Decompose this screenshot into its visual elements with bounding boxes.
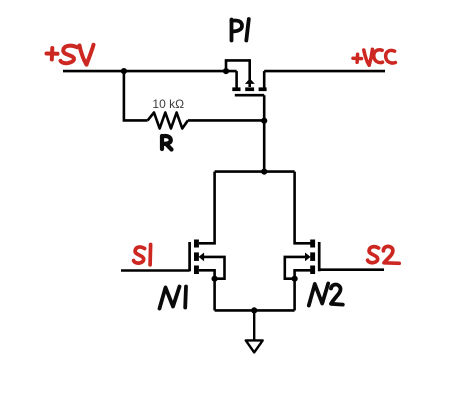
transistor N1 body arrow (points left) (199, 253, 205, 262)
net label +5V (47, 45, 94, 65)
transistor P1 channel segment (source, left bar) (232, 87, 240, 91)
reference label N1 (160, 287, 187, 309)
wire: resistor output to P1 gate node (188, 119, 264, 122)
wire: N1 drain vertical (199, 172, 215, 244)
transistor P1 body arrow (points up) (245, 79, 255, 84)
transistor P1 reference label (232, 19, 249, 41)
wire: P1 body loop over the top (226, 60, 250, 87)
transistor P1 channel segment (body, middle bar) (245, 87, 254, 91)
transistor N1 gate bar (188, 242, 191, 271)
node: junction of rail and resistor branch (121, 68, 127, 74)
transistor N2 gate bar (318, 242, 321, 271)
wire: bottom source rail (215, 309, 295, 312)
transistor N2 channel segment (source) (310, 266, 315, 275)
wire: branch horizontal to both drains (215, 170, 295, 173)
wire: N2 drain vertical (295, 172, 311, 244)
node: junction of rail and P1 body loop (223, 68, 229, 74)
net label S1 (134, 245, 151, 265)
wire: N2 body to source (285, 257, 305, 279)
wire: S1 input to N1 gate (121, 269, 190, 272)
reference label N2 (309, 284, 343, 306)
transistor N2 channel segment (drain) (310, 240, 315, 248)
transistor N2 body arrow (points right) (305, 253, 311, 262)
node: N1 source/body junction (212, 276, 218, 282)
transistor N2 channel segment (body) (310, 252, 315, 261)
node: ground junction (251, 307, 257, 313)
wire: P1 drain stub up to rail (263, 71, 266, 88)
net label +VCC (353, 49, 395, 65)
net label S2 (368, 246, 400, 263)
wire: N1 source stub down (199, 270, 215, 310)
wire: P1 source stub from rail down (235, 71, 238, 88)
wire: resistor branch, vertical drop and lead-in (124, 71, 148, 120)
wire: ground stem (253, 310, 255, 340)
node: N2 source/body junction (292, 276, 298, 282)
reference label R (162, 136, 172, 150)
svg-text:10 kΩ: 10 kΩ (152, 97, 184, 111)
node: drain branch junction (261, 169, 267, 175)
wire: N1 body to source (204, 257, 225, 279)
node: junction of resistor wire and P1 gate vertical (261, 118, 267, 124)
transistor N1 channel segment (drain) (194, 240, 199, 248)
ground symbol (246, 340, 263, 352)
wire: P1 gate down to branch node (263, 95, 266, 171)
transistor P1 channel segment (drain, right bar) (259, 87, 267, 91)
wire: +VCC top rail (right portion) (264, 70, 385, 73)
transistor N1 channel segment (source) (194, 266, 199, 275)
wire: N2 source stub down (295, 270, 311, 310)
wire: +5V top rail (left portion) (63, 70, 237, 73)
transistor P1 gate line (235, 94, 264, 97)
wire: N2 gate to S2 (319, 268, 384, 271)
transistor N1 channel segment (body) (194, 252, 199, 261)
resistor R zigzag (148, 113, 188, 129)
